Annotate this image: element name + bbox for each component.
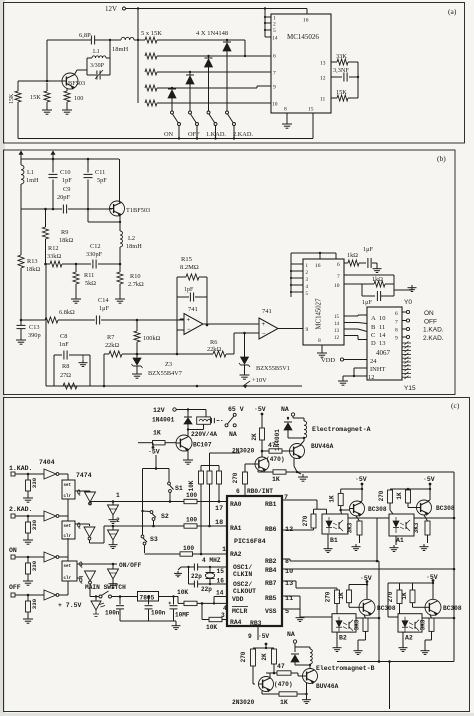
wire opto B2 out	[356, 617, 380, 620]
feedback R15 8.2M	[177, 256, 208, 330]
wire 12V rail relay	[176, 408, 206, 417]
terminal VDD	[321, 357, 367, 364]
svg-text:20pF: 20pF	[57, 194, 70, 201]
node +5V A2	[426, 574, 438, 599]
wire inv2 to ff2	[59, 516, 69, 521]
svg-text:1kΩ: 1kΩ	[372, 276, 383, 283]
IC U5 4067	[367, 307, 402, 381]
svg-text:6,8P: 6,8P	[79, 32, 91, 39]
svg-text:Y15: Y15	[404, 385, 416, 392]
panel (b) border	[4, 150, 456, 395]
svg-text:18mH: 18mH	[112, 46, 129, 53]
svg-text:S3: S3	[150, 536, 158, 543]
terminal input 1.KAD.	[9, 465, 32, 476]
terminal Y0 ON	[402, 310, 434, 317]
panel (c) border	[4, 398, 470, 712]
svg-text:27Ω: 27Ω	[60, 372, 71, 379]
wire 2N3020 base from 270	[245, 464, 255, 472]
svg-text:7474: 7474	[76, 472, 92, 479]
transistor BC308 A1	[417, 500, 455, 515]
svg-text:OSC2/: OSC2/	[233, 581, 252, 588]
svg-text:Electromagnet-B: Electromagnet-B	[316, 665, 375, 672]
ground Y0 row upper	[411, 284, 413, 286]
resistor 270 electromagnet B	[240, 649, 256, 684]
svg-text:7: 7	[273, 71, 276, 77]
terminal input OFF	[9, 584, 21, 597]
svg-text:1kΩ: 1kΩ	[347, 252, 358, 259]
ground INHT	[338, 378, 348, 385]
svg-text:CLKIN: CLKIN	[233, 571, 252, 578]
flipflop 7474 B	[62, 521, 81, 539]
transistor BC308 B1	[350, 501, 387, 516]
svg-text:13: 13	[285, 580, 293, 588]
feedback capacitor 1pF	[177, 287, 207, 303]
wire RB4 pin10	[282, 568, 454, 576]
svg-text:1.KAD.: 1.KAD.	[9, 465, 32, 472]
svg-text:BF503: BF503	[68, 80, 85, 87]
optocoupler B2	[332, 614, 356, 642]
pin 17	[215, 505, 223, 513]
svg-text:1.KAD.: 1.KAD.	[206, 131, 226, 138]
wire RB3 pin9 +5V	[248, 626, 269, 640]
svg-text:RB2: RB2	[265, 558, 277, 565]
node +5V B1	[355, 476, 367, 501]
relay contact terminals	[225, 413, 236, 427]
wire right rail	[357, 62, 359, 98]
svg-text:10K: 10K	[188, 480, 195, 491]
label 4x1N4148	[196, 30, 228, 37]
spacer	[0, 0, 1, 1]
svg-text:(470): (470)	[274, 681, 293, 688]
svg-text:10: 10	[285, 568, 293, 576]
wire Q1 out	[75, 491, 90, 492]
svg-text:RA1: RA1	[230, 525, 242, 532]
svg-text:100: 100	[186, 517, 197, 524]
IC U1 MC145026	[271, 14, 331, 113]
svg-text:S2: S2	[161, 513, 169, 520]
resistor R9 18k	[43, 208, 74, 264]
wire NA to coil	[287, 417, 304, 419]
svg-text:−: −	[262, 332, 266, 338]
pin 1	[222, 546, 226, 554]
label RB0/INT	[236, 488, 273, 495]
svg-text:12: 12	[368, 374, 375, 381]
inductor L1 1mH	[21, 159, 39, 209]
svg-text:BC107: BC107	[193, 442, 212, 449]
label Y0	[404, 299, 412, 306]
wire input A2	[388, 583, 398, 617]
svg-text:BC308: BC308	[368, 506, 387, 513]
resistor 1K A1	[396, 488, 411, 503]
capacitor 3/30P trimmer	[87, 58, 110, 80]
svg-text:6: 6	[273, 54, 276, 60]
svg-text:PIC16F84: PIC16F84	[234, 538, 266, 545]
wire BUV46A base B	[298, 673, 303, 676]
pin labels MC145026 left	[272, 16, 314, 113]
svg-text:A2: A2	[405, 635, 413, 642]
inductor L2 18mH	[120, 231, 142, 250]
wire opto A1 out	[414, 517, 455, 520]
antenna arrow 2	[51, 151, 55, 159]
svg-text:3,3NF: 3,3NF	[333, 67, 349, 74]
resistor 100 emitter	[64, 89, 83, 108]
svg-text:741: 741	[188, 306, 198, 313]
resistor R6 22k	[177, 339, 234, 357]
ground caps	[172, 621, 181, 629]
svg-text:R11: R11	[84, 272, 94, 279]
svg-text:15: 15	[334, 315, 340, 320]
wire row1 pin17	[90, 500, 180, 504]
svg-text:·5V: ·5V	[254, 406, 266, 413]
svg-text:ON: ON	[164, 131, 174, 138]
wire bracket to pins 1,2,5,14	[264, 7, 271, 37]
svg-text:8: 8	[395, 328, 398, 334]
svg-text:5: 5	[273, 28, 276, 34]
ground under Z3	[132, 371, 142, 378]
svg-text:T1BF503: T1BF503	[126, 207, 150, 214]
wire 7805 out rail	[159, 595, 185, 603]
ground under zener	[240, 372, 250, 379]
wire 1K to base A1	[408, 503, 416, 508]
svg-text:C8: C8	[60, 333, 67, 340]
svg-text:RA4: RA4	[230, 619, 242, 626]
terminal 2.KAD	[402, 335, 444, 342]
ground clamp row1	[109, 515, 118, 523]
ground under pin 8	[282, 113, 292, 128]
svg-text:100n: 100n	[105, 610, 120, 617]
svg-text:R15: R15	[181, 256, 192, 263]
wire 1K to base B2	[349, 603, 359, 608]
svg-text:7: 7	[395, 320, 398, 326]
svg-text:1K: 1K	[280, 699, 288, 706]
svg-text:VDD: VDD	[321, 357, 335, 364]
svg-text:OFF: OFF	[424, 319, 437, 326]
node +5V 2N3020	[254, 406, 266, 428]
wire VDD pin14	[213, 590, 227, 605]
wire input B2 opto	[300, 596, 332, 617]
resistor 15K left	[9, 81, 21, 139]
resistor 1K B1	[329, 488, 364, 506]
svg-text:C14: C14	[98, 297, 109, 304]
svg-text:set: set	[64, 525, 72, 529]
svg-text:VSS: VSS	[265, 608, 277, 615]
svg-text:(b): (b)	[437, 154, 446, 163]
inductor 18mH	[112, 37, 145, 53]
wire base node	[18, 80, 62, 83]
svg-text:R8: R8	[62, 363, 69, 370]
capacitor 100n output	[145, 595, 166, 621]
resistor 3K3 B2 body	[354, 618, 369, 648]
svg-text:1K: 1K	[272, 476, 280, 483]
svg-text:1: 1	[222, 546, 226, 554]
svg-text:OFF: OFF	[9, 584, 21, 591]
node NA electromagnet A	[281, 406, 295, 418]
capacitor 1uF pin6	[363, 246, 377, 268]
zener BZX55B5V1	[239, 333, 290, 372]
svg-text:1K: 1K	[396, 492, 403, 500]
svg-text:100n: 100n	[151, 610, 166, 617]
svg-text:C: C	[371, 332, 375, 339]
svg-text:1: 1	[116, 492, 120, 499]
wire bottom bus	[337, 660, 454, 663]
label MAIN SWITCH	[85, 584, 126, 591]
svg-text:1μF: 1μF	[362, 299, 373, 306]
capacitor C13 390p	[17, 324, 41, 339]
resistor 100k	[134, 320, 161, 355]
wire T1 collector	[119, 159, 121, 203]
svg-text:33K: 33K	[336, 53, 347, 60]
svg-text:NA: NA	[281, 406, 289, 413]
svg-text:5kΩ: 5kΩ	[85, 280, 96, 287]
capacitor C12 330pF	[76, 243, 120, 269]
svg-text:10: 10	[272, 102, 278, 108]
svg-text:6: 6	[236, 488, 240, 495]
clamp diode row2	[108, 526, 119, 540]
svg-text:741: 741	[262, 308, 272, 315]
svg-text:6: 6	[395, 311, 398, 317]
pin 4	[223, 605, 227, 612]
labels PIC right	[265, 501, 277, 615]
node NA electromagnet B	[287, 631, 297, 647]
svg-text:+: +	[187, 318, 191, 324]
svg-text:18mH: 18mH	[126, 243, 142, 250]
svg-text:100kΩ: 100kΩ	[143, 335, 161, 342]
svg-text:2K: 2K	[261, 653, 268, 661]
ground VSS	[296, 615, 305, 621]
capacitor 100n input	[105, 595, 138, 621]
svg-text:RB7: RB7	[265, 580, 277, 587]
svg-text:16: 16	[315, 263, 321, 269]
svg-text:11: 11	[320, 97, 326, 103]
capacitor C8 1nF	[54, 333, 90, 386]
wire 2N3020 collector B	[269, 673, 271, 678]
svg-text:L1: L1	[93, 49, 100, 55]
svg-text:5pF: 5pF	[97, 177, 107, 184]
wire row2 pin18	[90, 525, 181, 543]
svg-text:OFF: OFF	[188, 131, 200, 138]
svg-text:65 V: 65 V	[228, 406, 244, 413]
terminal input 2.KAD.	[9, 506, 32, 518]
label 5x15K	[141, 30, 162, 37]
wire coil to collector B	[309, 664, 311, 669]
svg-text:BUV46A: BUV46A	[311, 443, 334, 450]
svg-text:clr: clr	[64, 494, 72, 499]
svg-text:14: 14	[379, 332, 386, 339]
svg-text:1nF: 1nF	[59, 341, 69, 348]
wire op1 out	[203, 323, 259, 325]
svg-text:·5V: ·5V	[423, 476, 435, 483]
svg-text:10: 10	[379, 315, 386, 322]
wire 10K to MCLR	[197, 602, 227, 605]
svg-text:ON/OFF: ON/OFF	[119, 562, 142, 569]
wire emitter branch	[88, 209, 121, 223]
labels PIC left	[230, 501, 266, 627]
svg-text:100: 100	[74, 95, 83, 102]
svg-text:22kΩ: 22kΩ	[207, 346, 221, 353]
wire inv1 to ff1	[59, 474, 69, 480]
svg-text:RB5: RB5	[265, 595, 277, 602]
transistor BC308 A2	[425, 599, 462, 615]
svg-text:RB6: RB6	[265, 526, 277, 533]
wire bottom rail	[46, 385, 302, 388]
svg-text:15K: 15K	[336, 89, 347, 96]
resistor 1K BC107	[138, 430, 176, 445]
svg-text:A1: A1	[396, 537, 404, 544]
svg-text:8: 8	[318, 338, 321, 344]
ground 3K3 B2	[354, 648, 363, 654]
inverter 7404 2.KAD.	[18, 511, 59, 521]
switch 1.KAD	[207, 111, 217, 139]
ground 330 ON	[23, 578, 33, 585]
svg-text:3K3: 3K3	[413, 522, 420, 533]
switch S2	[150, 511, 169, 526]
svg-text:·5V: ·5V	[148, 449, 160, 456]
coil electromagnet B	[295, 647, 375, 672]
label 7404	[39, 459, 55, 466]
inverter 7404 OFF	[18, 590, 59, 600]
svg-text:C12: C12	[90, 243, 101, 250]
capacitor C10 1pF	[49, 159, 73, 209]
svg-text:8.2MΩ: 8.2MΩ	[180, 264, 199, 271]
ground opto A2	[399, 632, 408, 651]
wire 1K to base A2	[413, 603, 426, 608]
wire B1 led node	[314, 509, 327, 514]
resistor R8 27	[60, 363, 77, 389]
resistor 15K bus2	[145, 40, 271, 59]
svg-text:18kΩ: 18kΩ	[59, 237, 73, 244]
wire bundle Y1-Y14	[402, 341, 411, 378]
svg-text:RB4: RB4	[265, 567, 277, 574]
op-amp U2 741	[184, 306, 203, 335]
resistor 1K emitter A	[272, 470, 297, 483]
wire relay to collector	[187, 428, 204, 435]
wire data to 4067	[344, 315, 367, 340]
inverter driver 3	[85, 571, 96, 584]
resistor 10K pullup bracket	[188, 453, 240, 491]
svg-text:C10: C10	[60, 169, 71, 176]
resistor 10K b	[207, 466, 212, 528]
ground electromagnet A	[298, 474, 308, 481]
svg-text:5 x 15K: 5 x 15K	[141, 30, 162, 37]
wire INHT ground	[343, 368, 367, 378]
svg-text:47: 47	[268, 442, 276, 449]
wire collector A1	[428, 500, 430, 501]
wire collector to tank	[75, 58, 88, 75]
ground pin10 branch	[394, 285, 417, 291]
inverter driver 2	[84, 527, 95, 540]
svg-text:1K: 1K	[153, 430, 161, 437]
svg-text:RB1: RB1	[265, 501, 277, 508]
svg-text:7: 7	[337, 274, 340, 280]
wire op1 minus	[177, 330, 184, 354]
wire R7 row	[137, 353, 178, 356]
ground opto A1	[390, 536, 399, 551]
svg-text:10MF: 10MF	[175, 612, 190, 619]
node +5V BC107	[148, 443, 160, 456]
svg-text:390p: 390p	[28, 332, 41, 339]
svg-text:7805: 7805	[140, 595, 155, 602]
relay contact	[211, 418, 222, 423]
svg-text:2K: 2K	[251, 433, 258, 441]
resistor 270 A2	[387, 582, 434, 614]
resistor 15K pin11	[331, 89, 358, 101]
svg-text:set: set	[64, 484, 72, 488]
wire S3 branch	[142, 511, 144, 535]
switch MAIN	[99, 591, 112, 598]
svg-text:BZX55B5V1: BZX55B5V1	[256, 365, 290, 372]
terminal 1.KAD	[402, 327, 444, 334]
svg-text:330: 330	[31, 560, 38, 571]
resistor 3K3 A1	[413, 515, 430, 543]
optocoupler B1	[322, 514, 348, 544]
terminal OFF	[402, 319, 437, 326]
capacitor 10MF	[169, 597, 190, 622]
resistor 33K	[331, 53, 358, 65]
transistor T1 BF503	[110, 201, 151, 216]
resistor 15K bus4	[145, 85, 271, 91]
inverter driver 1	[85, 492, 96, 505]
wire bus drop	[378, 561, 380, 662]
wire clr chain b	[67, 538, 69, 561]
svg-text:220V/4A: 220V/4A	[191, 431, 217, 438]
resistor 270 A1	[378, 488, 431, 514]
flipflop 7474 C	[62, 561, 83, 584]
optocoupler A2	[398, 614, 422, 642]
wire right rail	[453, 472, 456, 662]
svg-text:270: 270	[378, 490, 385, 501]
svg-text:1mH: 1mH	[26, 177, 39, 184]
diode D3 1N4148	[205, 55, 213, 111]
wire left drop	[45, 264, 47, 386]
panel label (b)	[437, 154, 446, 163]
flipflop 7474 A	[62, 480, 81, 499]
panel label (c)	[451, 401, 460, 410]
resistor 100 row2	[180, 517, 227, 529]
wire BUV46A emitter B	[305, 683, 307, 698]
wire input B1 from pin7	[282, 500, 317, 509]
svg-text:4 X 1N4148: 4 X 1N4148	[196, 30, 228, 37]
resistor 1k pin6	[344, 252, 366, 266]
svg-text:7404: 7404	[39, 459, 55, 466]
wire 2K to node	[261, 440, 264, 457]
svg-text:1pF: 1pF	[62, 177, 72, 184]
svg-text:MC145027: MC145027	[316, 298, 323, 330]
capacitor 22p b label	[201, 586, 212, 593]
svg-text:330: 330	[31, 519, 38, 530]
svg-text:14: 14	[334, 322, 340, 327]
svg-text:4067: 4067	[376, 349, 391, 357]
svg-text:10K: 10K	[206, 624, 217, 631]
inductor L1 tank	[87, 39, 111, 58]
svg-text:2.KAD.: 2.KAD.	[233, 131, 253, 138]
svg-text:RB0/INT: RB0/INT	[247, 488, 273, 495]
svg-text:2N3020: 2N3020	[232, 699, 255, 706]
svg-text:Electromagnet-A: Electromagnet-A	[312, 426, 371, 433]
svg-text:12: 12	[320, 76, 326, 82]
pin labels 4067 outputs	[395, 311, 398, 342]
capacitor C11 5pF	[84, 159, 108, 209]
resistor 330 2.KAD.	[26, 516, 39, 537]
ground crystal	[174, 567, 189, 577]
capacitor 3.3NF	[331, 67, 358, 82]
node 12V input	[153, 407, 176, 414]
ground pin8 MC145027	[317, 345, 327, 357]
svg-text:MAIN SWITCH: MAIN SWITCH	[85, 584, 126, 591]
IC 7805 regulator	[138, 592, 159, 602]
svg-text:OSC1/: OSC1/	[233, 564, 252, 571]
svg-text:1K: 1K	[329, 495, 336, 503]
svg-text:BZX55B4V7: BZX55B4V7	[148, 370, 182, 377]
